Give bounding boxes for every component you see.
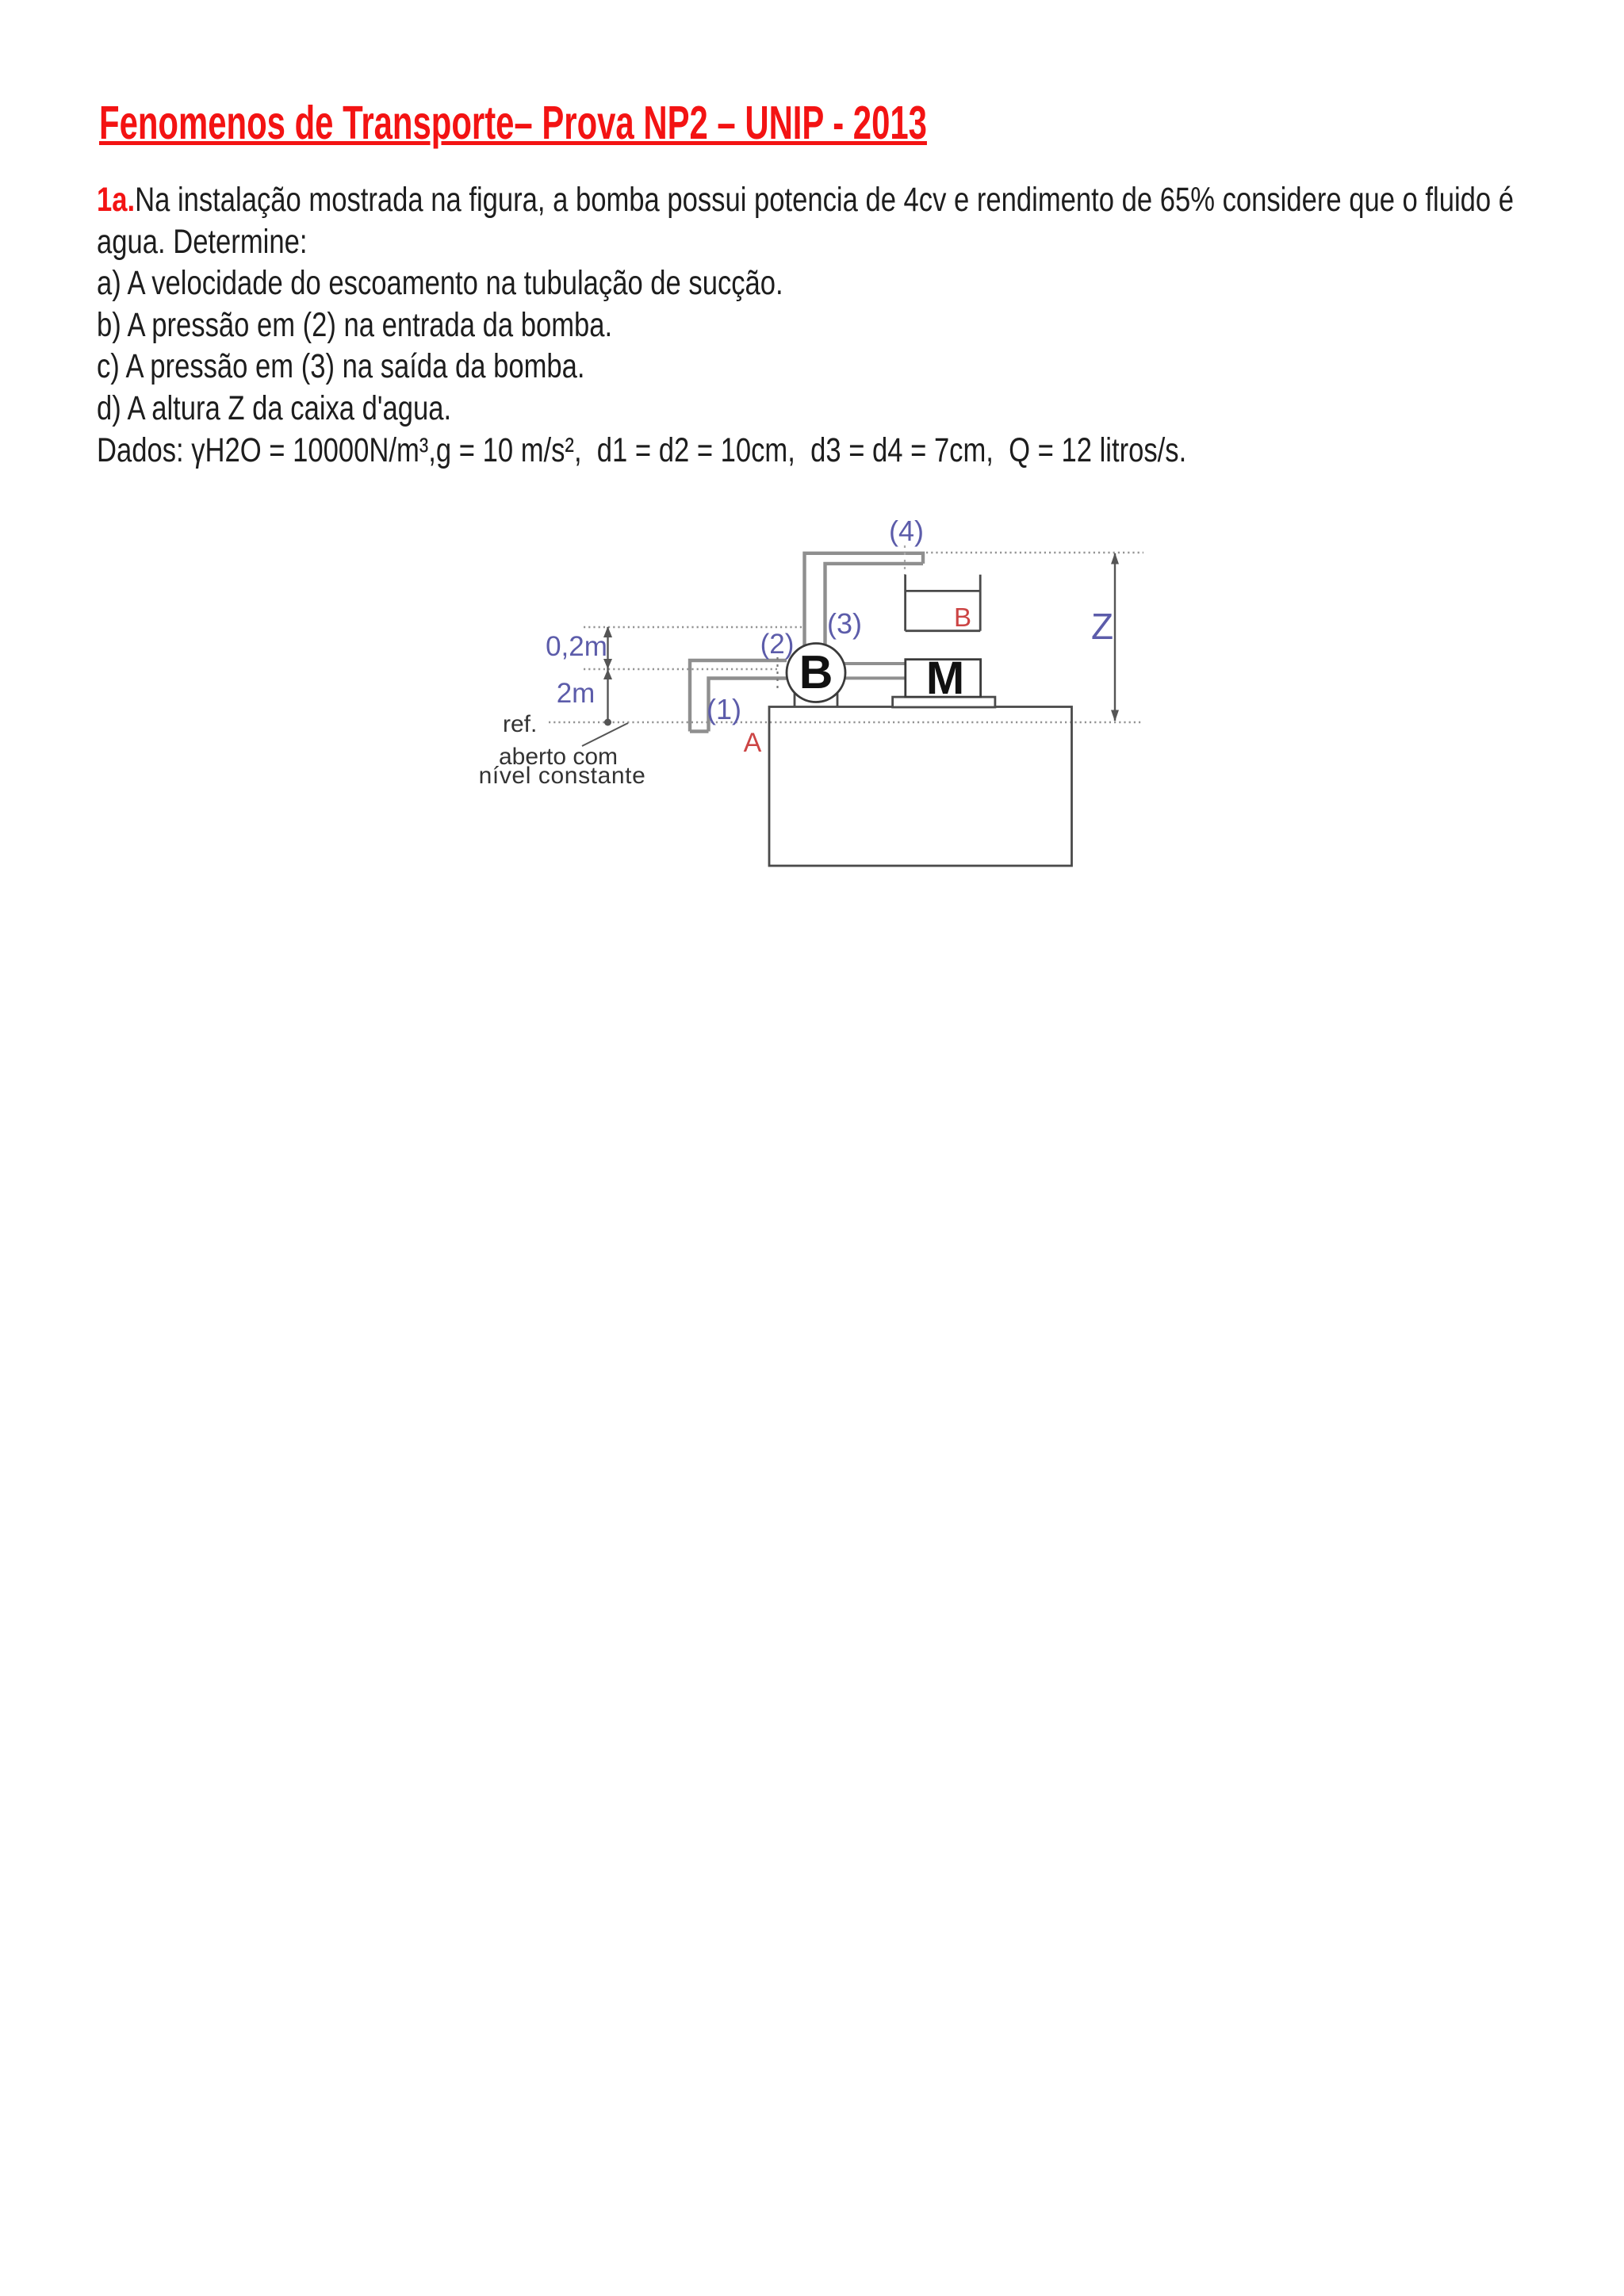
svg-text:Z: Z	[1091, 606, 1113, 647]
discharge pipe	[805, 553, 924, 646]
svg-text:ref.: ref.	[503, 711, 537, 737]
dotted level line at (4) top level	[926, 552, 1143, 553]
reservoir tank A	[769, 707, 1072, 867]
svg-text:(2): (2)	[760, 629, 795, 660]
dotted level line at (2) pump centerline	[584, 668, 778, 670]
dimension line 0,2m + 2m	[607, 627, 608, 722]
motor base plate	[893, 697, 995, 707]
suction pipe	[690, 660, 787, 732]
problem statement text	[97, 179, 1514, 471]
dotted level line at (3) level	[584, 626, 804, 628]
svg-text:A: A	[744, 728, 762, 758]
leader dashes below (4)	[904, 545, 906, 575]
svg-text:B: B	[799, 646, 833, 698]
shaft pump-motor	[843, 664, 906, 678]
title	[99, 100, 927, 147]
svg-text:0,2m: 0,2m	[546, 631, 607, 662]
Z dimension line	[1114, 553, 1116, 721]
dotted reference line	[549, 721, 1143, 723]
leader line aberto com	[582, 723, 628, 746]
svg-text:B: B	[954, 603, 971, 632]
svg-text:M: M	[926, 652, 964, 704]
pump installation diagram	[436, 499, 1166, 880]
pump support pedestal	[795, 693, 837, 707]
svg-text:nível constante: nível constante	[479, 763, 646, 789]
motor M box	[906, 660, 981, 697]
section marker (2) dashed	[776, 657, 778, 690]
pump B circle	[787, 644, 845, 702]
svg-text:2m: 2m	[557, 678, 596, 709]
svg-text:(3): (3)	[827, 607, 862, 640]
svg-text:(4): (4)	[889, 515, 924, 547]
small tank B walls	[906, 575, 981, 631]
svg-text:(1): (1)	[707, 693, 741, 725]
